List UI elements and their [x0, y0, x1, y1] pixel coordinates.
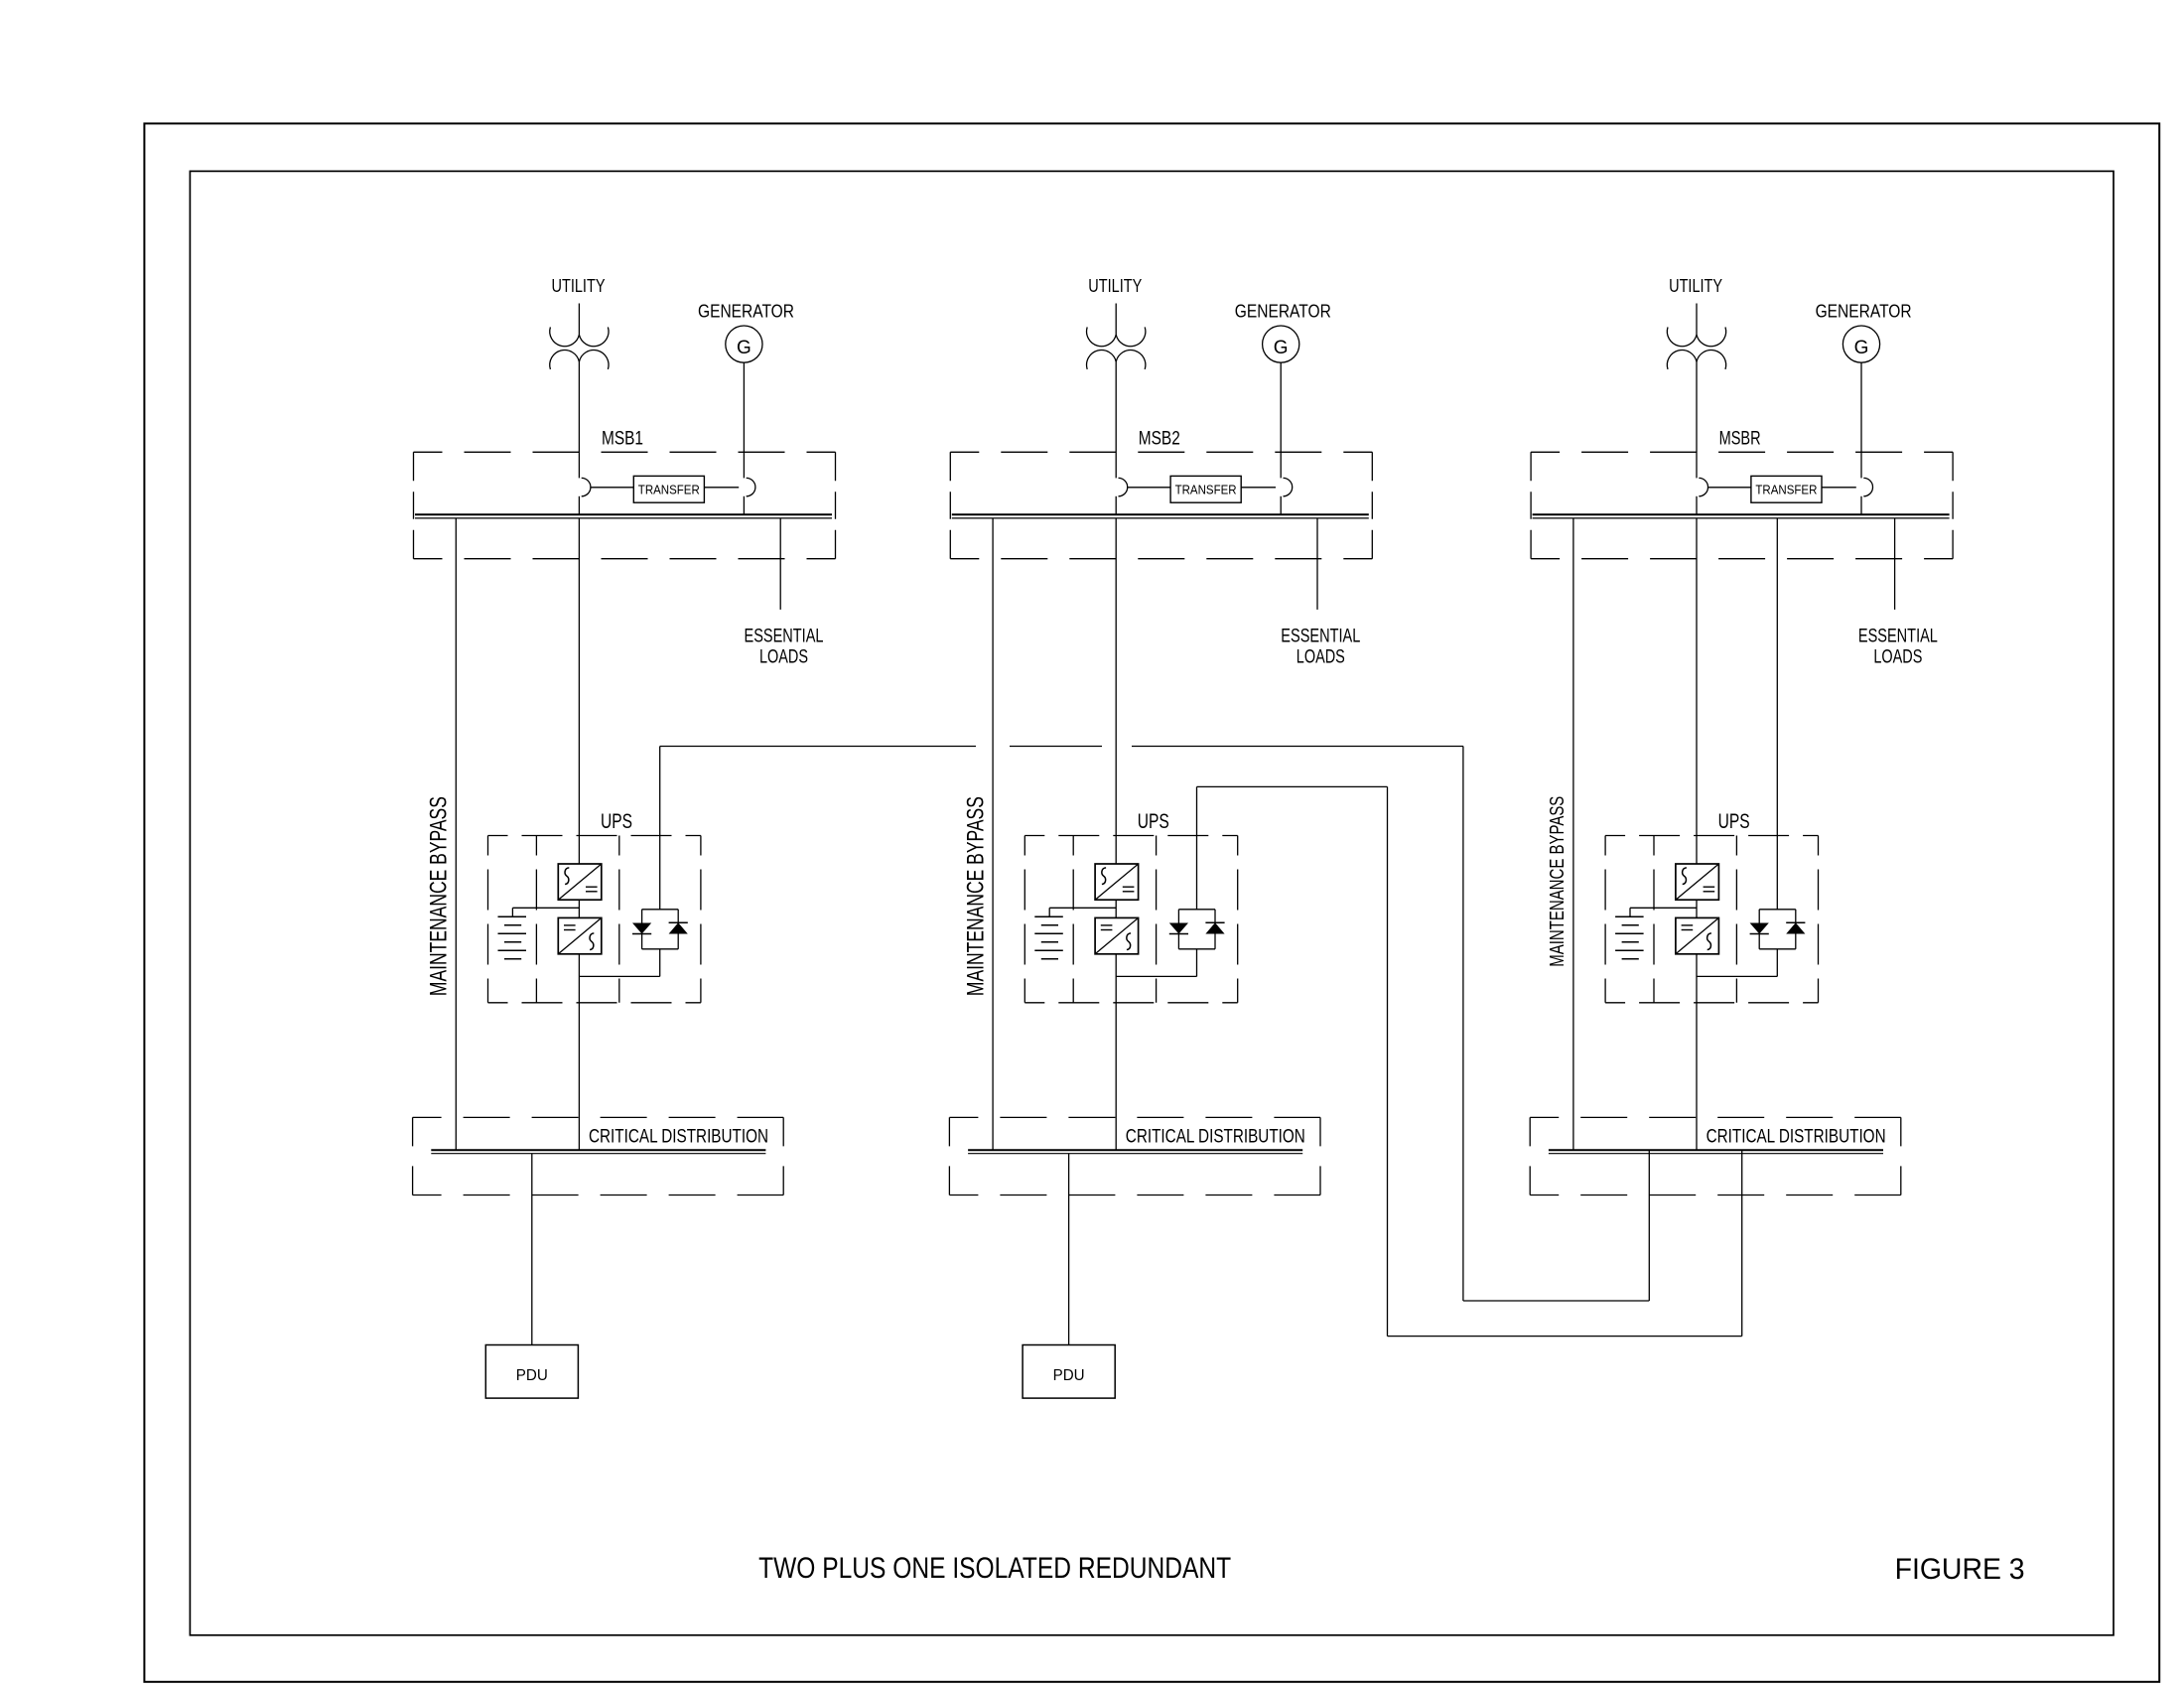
breaker (utility input, MSBR) — [1699, 478, 1707, 495]
wire utility 1 transformer to breaker — [578, 361, 580, 478]
wire transfer link left (MSB2) — [1128, 487, 1170, 489]
wire transfer link right (MSB2) — [1241, 487, 1276, 489]
wire tie A: horizontal to reserve — [1463, 1300, 1649, 1302]
svg-text:UTILITY: UTILITY — [1669, 276, 1722, 296]
breaker (generator input, MSB1) — [747, 478, 755, 495]
generator G2 circle — [1263, 326, 1299, 362]
rectifier (UPS 3) — [1676, 864, 1719, 900]
bus CRITICAL DISTRIBUTION 1 — [431, 1149, 765, 1151]
battery (UPS 1) — [498, 915, 527, 917]
inverter (UPS 3) — [1676, 917, 1719, 953]
svg-text:FIGURE 3: FIGURE 3 — [1895, 1553, 2025, 1586]
wire transfer link left (MSB1) — [591, 487, 633, 489]
wire utility 3 drop above transformer — [1696, 304, 1698, 336]
svg-text:LOADS: LOADS — [759, 647, 808, 668]
svg-text:TWO PLUS ONE ISOLATED REDU: TWO PLUS ONE ISOLATED REDUNDANT — [758, 1552, 1231, 1585]
wire DC link (UPS 2) — [1115, 900, 1117, 917]
svg-text:PDU: PDU — [1053, 1367, 1085, 1384]
switchboard boundary MSBR (dashed) — [1531, 451, 1953, 453]
wire static switch input (UPS 3) — [1776, 518, 1778, 910]
wire battery tap (UPS 3) — [1630, 907, 1697, 909]
wire UPS 1 output to critical bus — [578, 954, 580, 1150]
wire utility 1 bus to rectifier — [578, 518, 580, 864]
transfer switch TRANSFER box (MSB1) — [633, 476, 704, 502]
wire static switch output (UPS 3) — [1776, 949, 1778, 977]
wire battery tap (UPS 1) — [512, 907, 579, 909]
wire essential loads feeder 3 — [1894, 518, 1896, 610]
wire generator 2 breaker to bus — [1280, 496, 1282, 515]
wire generator 2 to breaker — [1280, 362, 1282, 478]
svg-text:G: G — [1854, 338, 1869, 358]
svg-text:ESSENTIAL: ESSENTIAL — [1281, 627, 1360, 647]
wire tie A: UPS1 static-switch bypass from reserve bus (horizontal run, with crossover breaks) — [660, 746, 976, 748]
wire essential loads feeder 2 — [1316, 518, 1318, 610]
PDU 1 box — [485, 1345, 578, 1399]
wire generator 3 breaker to bus — [1860, 496, 1862, 515]
wire utility 2 bus to rectifier — [1115, 518, 1117, 864]
transformer T3 (utility service, column 3) — [1667, 327, 1725, 346]
bus MSB1 — [415, 513, 832, 515]
wire utility 3 breaker to bus — [1696, 496, 1698, 515]
wire maintenance bypass 1 — [455, 518, 457, 1150]
battery (UPS 2) — [1034, 915, 1063, 917]
wire PDU feeder 1 — [531, 1154, 533, 1345]
UPS 2 internal divider (battery bay) — [1072, 836, 1074, 1003]
bus MSB2 — [952, 513, 1369, 515]
svg-text:CRITICAL DISTRIBUTION: CRITICAL DISTRIBUTION — [1706, 1127, 1886, 1148]
wire generator 3 to breaker — [1860, 362, 1862, 478]
svg-text:ESSENTIAL: ESSENTIAL — [1858, 627, 1938, 647]
static switch (UPS 1) — [642, 909, 679, 911]
svg-text:TRANSFER: TRANSFER — [1755, 483, 1817, 497]
bus MSBR — [1533, 513, 1950, 515]
svg-text:GENERATOR: GENERATOR — [1235, 302, 1331, 322]
wire essential loads feeder 1 — [779, 518, 781, 610]
wire utility 3 transformer to breaker — [1696, 361, 1698, 478]
svg-text:UTILITY: UTILITY — [552, 276, 606, 296]
transfer switch TRANSFER box (MSB2) — [1170, 476, 1241, 502]
svg-text:MSB1: MSB1 — [602, 429, 643, 450]
UPS 1 internal divider (battery bay) — [535, 836, 537, 1003]
svg-text:ESSENTIAL: ESSENTIAL — [745, 627, 824, 647]
wire static switch output (UPS 1) — [659, 949, 661, 977]
UPS 1 internal divider (static switch bay) — [618, 836, 620, 1003]
svg-text:LOADS: LOADS — [1873, 647, 1922, 668]
bus CRITICAL DISTRIBUTION 2 — [968, 1149, 1302, 1151]
wire utility 2 transformer to breaker — [1115, 361, 1117, 478]
wire static switch input (UPS 2) — [1196, 786, 1198, 909]
svg-text:G: G — [737, 338, 751, 358]
svg-text:MSBR: MSBR — [1719, 429, 1761, 450]
svg-text:MAINTENANCE BYPASS: MAINTENANCE BYPASS — [1547, 796, 1569, 967]
UPS 2 internal divider (static switch bay) — [1156, 836, 1158, 1003]
inverter (UPS 2) — [1095, 917, 1139, 953]
breaker (utility input, MSB1) — [582, 478, 591, 495]
wire static switch input (UPS 1) — [659, 747, 661, 910]
generator G3 circle — [1843, 326, 1879, 362]
transformer T2 (utility service, column 2) — [1087, 327, 1146, 346]
wire DC link (UPS 3) — [1696, 900, 1698, 917]
wire tie B: horizontal to reserve — [1388, 1336, 1742, 1337]
wire generator 1 breaker to bus — [743, 496, 745, 515]
svg-text:UTILITY: UTILITY — [1088, 276, 1142, 296]
wire tie B: UPS2 static-switch bypass from reserve bus (horizontal run) — [1197, 785, 1388, 787]
wire tie B: riser up into reserve critical bus — [1741, 1150, 1743, 1336]
svg-text:UPS: UPS — [601, 810, 632, 833]
breaker (generator input, MSBR) — [1863, 478, 1872, 495]
switchboard boundary MSB1 (dashed) — [414, 451, 836, 453]
wire UPS 3 output to critical bus — [1696, 954, 1698, 1150]
wire maintenance bypass 2 — [992, 518, 994, 1150]
wire generator 1 to breaker — [743, 362, 745, 478]
wire maintenance bypass 3 — [1572, 518, 1574, 1150]
svg-text:LOADS: LOADS — [1297, 647, 1345, 668]
wire utility 1 drop above transformer — [578, 304, 580, 336]
UPS 2 enclosure (dashed) — [1024, 835, 1237, 837]
wire battery tap (UPS 2) — [1049, 907, 1116, 909]
bus CRITICAL DISTRIBUTION 3 — [1549, 1149, 1883, 1151]
battery (UPS 3) — [1615, 915, 1644, 917]
breaker (generator input, MSB2) — [1284, 478, 1293, 495]
svg-text:CRITICAL DISTRIBUTION: CRITICAL DISTRIBUTION — [1126, 1127, 1305, 1148]
wire static switch output (UPS 2) — [1196, 949, 1198, 977]
svg-text:G: G — [1274, 338, 1289, 358]
svg-text:PDU: PDU — [516, 1367, 548, 1384]
static switch (UPS 2) — [1178, 909, 1215, 911]
wire tie A: riser up into reserve critical bus — [1648, 1150, 1650, 1301]
wire PDU feeder 2 — [1068, 1154, 1070, 1345]
wire DC link (UPS 1) — [578, 900, 580, 917]
breaker (utility input, MSB2) — [1119, 478, 1128, 495]
wire transfer link right (MSB1) — [704, 487, 739, 489]
rectifier (UPS 2) — [1095, 864, 1139, 900]
critical distribution boundary 2 (dashed) — [949, 1116, 1320, 1118]
switchboard boundary MSB2 (dashed) — [950, 451, 1372, 453]
svg-text:GENERATOR: GENERATOR — [1816, 302, 1912, 322]
transfer switch TRANSFER box (MSBR) — [1751, 476, 1822, 502]
wire transfer link left (MSBR) — [1708, 487, 1751, 489]
border frame inner — [190, 171, 2114, 1634]
UPS 3 internal divider (battery bay) — [1653, 836, 1655, 1003]
svg-text:UPS: UPS — [1138, 810, 1169, 833]
UPS 3 internal divider (static switch bay) — [1735, 836, 1737, 1003]
wire tie B: vertical riser down — [1387, 786, 1389, 1336]
svg-text:UPS: UPS — [1718, 810, 1750, 833]
static switch (UPS 3) — [1759, 909, 1796, 911]
wire tie A: vertical riser down — [1462, 747, 1464, 1302]
svg-text:TRANSFER: TRANSFER — [638, 483, 700, 497]
UPS 1 enclosure (dashed) — [488, 835, 701, 837]
wire transfer link right (MSBR) — [1822, 487, 1856, 489]
transformer T1 (utility service, column 1) — [550, 327, 609, 346]
critical distribution boundary 3 (dashed) — [1530, 1116, 1901, 1118]
svg-text:MAINTENANCE BYPASS: MAINTENANCE BYPASS — [426, 796, 453, 996]
svg-text:CRITICAL DISTRIBUTION: CRITICAL DISTRIBUTION — [589, 1127, 768, 1148]
wire utility 1 breaker to bus — [578, 496, 580, 515]
svg-text:MAINTENANCE BYPASS: MAINTENANCE BYPASS — [962, 796, 989, 996]
wire utility 3 bus to rectifier — [1696, 518, 1698, 864]
critical distribution boundary 1 (dashed) — [413, 1116, 784, 1118]
svg-text:GENERATOR: GENERATOR — [698, 302, 794, 322]
UPS 3 enclosure (dashed) — [1605, 835, 1818, 837]
wire utility 2 breaker to bus — [1115, 496, 1117, 515]
svg-text:MSB2: MSB2 — [1139, 429, 1180, 450]
wire utility 2 drop above transformer — [1115, 304, 1117, 336]
PDU 2 box — [1023, 1345, 1115, 1399]
wire UPS 2 output to critical bus — [1115, 954, 1117, 1150]
svg-text:TRANSFER: TRANSFER — [1175, 483, 1237, 497]
inverter (UPS 1) — [558, 917, 602, 953]
rectifier (UPS 1) — [558, 864, 602, 900]
generator G1 circle — [726, 326, 762, 362]
